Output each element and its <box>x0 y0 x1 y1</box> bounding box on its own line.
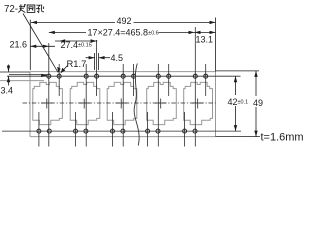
13.1 arrows <box>195 31 201 34</box>
wire: strip bottom edge <box>30 136 216 138</box>
leader arrow to hole <box>57 67 60 73</box>
node hole B3a <box>111 129 115 133</box>
wire: extra line near top-left holes <box>9 74 47 76</box>
svg-text:49: 49 <box>253 98 263 108</box>
svg-text:t=1.6mm: t=1.6mm <box>261 132 304 144</box>
node cutout4 <box>147 82 177 124</box>
3.4 arrows <box>7 66 10 72</box>
wire: 492/left extension <box>29 20 31 71</box>
node hole T5a <box>193 74 197 78</box>
42 arrows <box>234 76 237 82</box>
node cutout5 <box>184 82 213 124</box>
node hole B1a <box>37 129 41 133</box>
node cutout3 <box>107 82 137 124</box>
wire: mid horizontal chain centerline <box>23 102 216 104</box>
wire: 4.5 left arrow shaft <box>86 57 95 59</box>
wire: 3.4 dimension vertical <box>8 65 10 86</box>
svg-text:13.1: 13.1 <box>196 35 214 45</box>
wire: merged vertical centerlines (top hole a / bottom hole b) <box>48 43 50 147</box>
dimension lines, black <box>0 14 260 137</box>
svg-text:R1.7: R1.7 <box>67 58 87 69</box>
glyph: kong <box>36 5 44 13</box>
wire: right edge extension up <box>215 18 217 72</box>
node hole T1a <box>47 74 51 78</box>
svg-text:27.4±0.15: 27.4±0.15 <box>61 40 92 50</box>
node hole T4b <box>167 74 171 78</box>
wire: 21.6 dimension line <box>30 45 55 47</box>
svg-text:21.6: 21.6 <box>10 40 28 50</box>
wire: leader to 72-oblong-holes label <box>23 14 58 73</box>
wire: 4.5 right arrow shaft and lead to text <box>99 57 110 59</box>
wire: extra grey line left <box>0 80 44 82</box>
wire: bottom hole row centerline <box>2 130 241 132</box>
cutout windows (castellated, stepped body), grey <box>33 82 213 124</box>
node hole T2a <box>84 74 88 78</box>
glyph: chang <box>18 4 26 12</box>
wire: 42 dimension vertical <box>235 76 237 131</box>
node hole T1b <box>57 74 61 78</box>
node cutout1 <box>33 82 63 124</box>
centerlines <box>2 27 241 147</box>
wire: leader from R1.7 <box>61 66 68 73</box>
oblong holes top row <box>37 74 208 133</box>
wire: 27.4 dimension line <box>55 40 97 42</box>
wire: bottom edge extension right <box>216 136 261 138</box>
node hole B2b <box>84 129 88 133</box>
node hole T5b <box>204 74 208 78</box>
svg-text:72-: 72- <box>4 4 18 15</box>
node hole B4a <box>146 129 150 133</box>
strip outline (part edges, grey) <box>0 72 216 137</box>
svg-text:3.4: 3.4 <box>1 86 14 96</box>
node hole B5a <box>183 129 187 133</box>
svg-text:17×27.4=465.8±0.6: 17×27.4=465.8±0.6 <box>88 28 159 38</box>
wire: 13.1 dimension line <box>195 31 216 33</box>
wire: 4.5 extension lines <box>95 53 99 70</box>
glyph: yuan <box>27 5 35 12</box>
wire: top edge extension right <box>216 70 260 72</box>
arrowheads <box>7 21 258 137</box>
21.6 arrows <box>30 45 36 48</box>
white gaps behind right-side dimension texts <box>229 95 265 107</box>
27.4 arrows <box>59 39 65 42</box>
node hole B2a <box>74 129 78 133</box>
break line (S-curve) <box>134 64 139 146</box>
wire: 465.8 dimension line <box>49 31 195 33</box>
svg-text:492: 492 <box>117 16 132 26</box>
R1.7 leader arrow <box>61 68 66 73</box>
node hole B3b <box>121 129 125 133</box>
arrow of left double-line pointing at first hole <box>41 74 47 77</box>
node cutout2 <box>70 82 100 124</box>
wire: strip left end edge <box>29 72 31 137</box>
node hole T2b <box>95 74 99 78</box>
node hole B1b <box>47 129 51 133</box>
465.8 arrows <box>49 31 55 34</box>
4.5 arrows <box>89 56 95 59</box>
wire: vertical centerlines through top holes b <box>58 64 60 96</box>
node cutout center cross ticks <box>41 99 53 109</box>
hand drawn CJK glyphs: 长圆孔 <box>18 4 44 12</box>
492 arrows <box>31 21 37 24</box>
wire: 49 dimension vertical <box>255 71 257 137</box>
wire: strip top edge extension to left <box>0 71 30 73</box>
wire: 492 dimension line <box>31 21 216 23</box>
49 arrows <box>254 71 257 77</box>
node hole B4b <box>156 129 160 133</box>
wire: vertical centerlines through bottom holes a <box>38 112 40 147</box>
wire: strip top edge <box>30 71 216 73</box>
wire: strip right end edge <box>215 72 217 137</box>
node hole B5b <box>193 129 197 133</box>
svg-text:4.5: 4.5 <box>111 53 124 63</box>
node hole T4a <box>156 74 160 78</box>
wire: top hole row centerline <box>7 75 241 77</box>
node hole T3b <box>132 74 136 78</box>
node hole T3a <box>121 74 125 78</box>
